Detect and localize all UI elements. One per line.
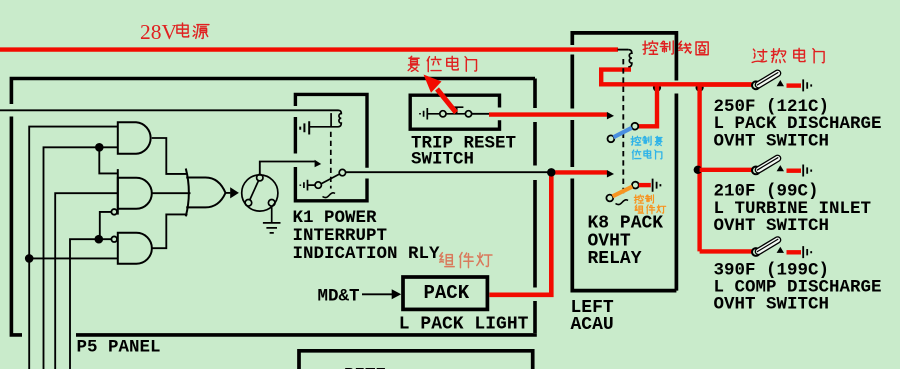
S1 contact bottom-right <box>268 200 275 207</box>
wire G2 output to OR <box>152 192 191 194</box>
node A junction <box>25 254 34 263</box>
annotation arrow to 复位电门 <box>424 75 457 113</box>
trip reset contact right <box>465 111 471 117</box>
K8 reset contact fixed <box>632 123 639 130</box>
wire junction to PACK lamp (red) <box>489 172 551 294</box>
svg-text:MD&T: MD&T <box>318 286 360 306</box>
svg-text:SWITCH: SWITCH <box>411 150 474 170</box>
AND gate G1 <box>118 122 151 154</box>
thermal bus (red) <box>697 84 701 251</box>
svg-text:P5 PANEL: P5 PANEL <box>77 337 161 357</box>
PACK lamp box <box>403 277 487 309</box>
actuation arrow on K8 reset contact <box>607 112 614 120</box>
K8 link curl <box>616 200 629 205</box>
actuation arrow on K8 light contact <box>607 170 614 178</box>
P5 panel box <box>10 79 537 336</box>
wire logic input C <box>55 193 118 369</box>
thermal switch 390F arrow <box>777 247 784 253</box>
wire trip reset output <box>472 113 491 115</box>
relay K8 coil hook <box>618 49 629 51</box>
svg-text:OVHT SWITCH: OVHT SWITCH <box>714 295 830 315</box>
label 控制组件灯 (orange) <box>634 195 665 214</box>
wire G1 output to OR <box>152 138 188 174</box>
K1 contact moving <box>339 169 345 175</box>
node light junction dot top <box>547 168 555 176</box>
thermal switch 390F sensing element <box>754 236 782 256</box>
node 210F branch <box>694 166 702 174</box>
node D junction <box>95 235 104 244</box>
wire logic input B <box>44 147 118 369</box>
label K8 PACK OVHT RELAY <box>588 214 664 269</box>
wire A to gate G3 lower input <box>29 257 118 259</box>
thermal switch 250F lead (red) <box>700 82 752 86</box>
K8 reset contact arm (blue) <box>614 128 632 137</box>
label 210F (99C) L TURBINE INLET OVHT SWITCH <box>714 182 872 236</box>
thermal switch 250F sensing element <box>754 69 782 89</box>
label 控制线圈 <box>643 41 708 55</box>
wire D branch to gate G2 bottom input <box>100 212 112 239</box>
K1 mechanical link dashed <box>330 113 332 127</box>
svg-text:PACK: PACK <box>424 282 470 304</box>
BITE box <box>299 351 533 369</box>
label LEFT ACAU <box>571 298 614 335</box>
label 250F (121C) L PACK DISCHARGE OVHT SWITCH <box>714 97 882 151</box>
trip reset plunger <box>446 107 465 114</box>
svg-text:ACAU: ACAU <box>571 315 614 335</box>
MD&T arrow to PACK <box>362 289 401 299</box>
svg-text:INDICATION RLY: INDICATION RLY <box>293 244 441 264</box>
relay K8 coil <box>628 50 632 67</box>
svg-text:RELAY: RELAY <box>588 249 642 269</box>
wire light contact to terminal (red) <box>639 183 651 187</box>
thermal switch 250F stub (red) <box>787 83 802 87</box>
thermal switch 210F contact circle <box>752 167 760 175</box>
wire logic input D <box>70 239 111 369</box>
inverter bubble gate G2 bottom input <box>111 209 117 215</box>
node B junction <box>95 143 104 152</box>
terminal in K1 coil circuit <box>300 121 309 134</box>
wire G3 output to OR <box>152 214 188 248</box>
K1 link curl <box>323 193 336 198</box>
K8 light contact arm (orange) <box>613 187 633 197</box>
OR gate G4 <box>186 169 226 217</box>
K1 switch arm <box>321 174 339 184</box>
thermal switch 210F lead (red) <box>700 168 752 172</box>
K8 reset contact moving <box>608 135 615 142</box>
wire junction to K8 (red) <box>551 170 607 174</box>
K8 mechanical link dashed <box>622 59 624 197</box>
inverter bubble gate G3 top input <box>111 236 117 242</box>
svg-text:INTERRUPT: INTERRUPT <box>293 226 388 246</box>
K1 contact stationary <box>315 182 321 188</box>
svg-text:OVHT SWITCH: OVHT SWITCH <box>714 216 830 236</box>
label 28V电源 <box>140 20 209 44</box>
svg-text:OVHT SWITCH: OVHT SWITCH <box>714 131 830 151</box>
rotary switch S1 body <box>242 175 278 211</box>
label 390F (199C) L COMP DISCHARGE OVHT SWITCH <box>714 260 882 314</box>
wire S1 to relay K1 <box>260 162 315 175</box>
LEFT ACAU box <box>572 33 676 291</box>
AND gate G2 <box>118 178 152 209</box>
K1 contact terminal symbol <box>300 180 315 191</box>
thermal switch 250F arrow <box>777 80 784 86</box>
wire K8 coil return (red) <box>601 70 751 85</box>
S1 contact top <box>257 175 263 181</box>
trip reset terminal symbol <box>420 108 440 120</box>
AND gate G3 <box>118 233 152 264</box>
label 过热电门 <box>752 48 824 63</box>
svg-text:BITE: BITE <box>344 366 386 369</box>
trip reset contact left <box>440 111 446 117</box>
wire K1 to junction node <box>346 171 550 173</box>
trip reset switch box <box>410 95 499 129</box>
relay K1 coil <box>310 110 342 127</box>
node thermal bus branch <box>696 84 704 92</box>
svg-text:28V: 28V <box>140 20 178 44</box>
wire B branch to gate G2 top input <box>99 147 118 173</box>
thermal switch 210F sensing element <box>754 154 782 174</box>
node light wire junction <box>547 168 555 176</box>
S1 wiper arm <box>250 180 259 201</box>
terminal at K8 light contact <box>653 179 661 192</box>
svg-text:K1 POWER: K1 POWER <box>293 208 378 228</box>
ground for S1 <box>263 206 281 233</box>
thermal switch 390F stub (red) <box>787 250 802 254</box>
K8 light contact fixed <box>632 182 639 189</box>
thermal switch 390F terminal <box>803 246 811 258</box>
label 控制复位电门 (cyan) <box>631 136 662 159</box>
wire 28V power bus <box>0 47 618 51</box>
thermal switch 210F stub (red) <box>787 168 802 172</box>
node reset branch <box>653 84 661 92</box>
label 组件灯 <box>440 253 492 268</box>
wire trip reset to K8 (red) <box>489 112 607 116</box>
label 复位电门 <box>408 56 476 71</box>
S1 contact bottom-left <box>245 200 252 207</box>
actuation arrow in K1 <box>315 160 322 168</box>
svg-text:L PACK LIGHT: L PACK LIGHT <box>399 315 529 335</box>
thermal switch 390F lead (red) <box>700 249 752 253</box>
relay K1 box <box>295 94 367 200</box>
wire control input to K1 coil <box>0 109 339 111</box>
thermal switch 210F terminal <box>803 165 811 177</box>
label K1 POWER INTERRUPT INDICATION RLY <box>293 208 441 264</box>
thermal switch 250F terminal <box>803 79 811 91</box>
amplifier triangle <box>230 187 239 198</box>
thermal switch 250F contact circle <box>752 81 760 89</box>
wire logic input A <box>29 127 118 369</box>
wire to reset contact (red) <box>638 84 657 126</box>
thermal switch 390F contact circle <box>752 248 760 256</box>
K8 light contact moving <box>606 195 613 202</box>
thermal switch 210F arrow <box>777 165 784 171</box>
wire G4 output <box>226 192 231 194</box>
label TRIP RESET SWITCH <box>411 134 516 170</box>
